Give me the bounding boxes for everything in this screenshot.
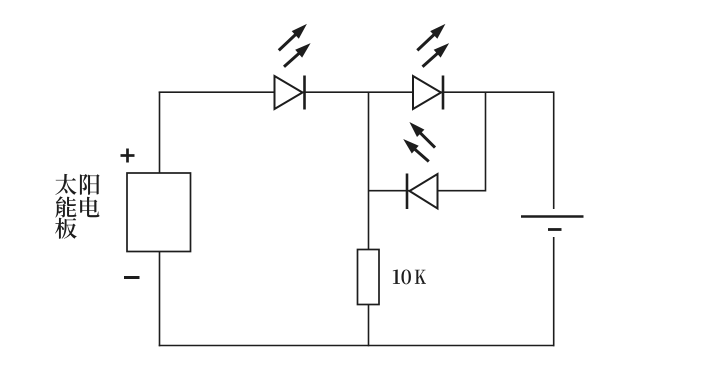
- wire bypass branch vertical to node B: [485, 92, 487, 192]
- LED D3 reverse triangle: [410, 174, 438, 209]
- label - polarity: [124, 276, 140, 279]
- LED D3 arrow 2: [414, 148, 429, 161]
- LED D2 arrow 1: [417, 34, 435, 51]
- battery negative plate: [548, 228, 562, 231]
- wire panel - lead: [159, 251, 161, 346]
- label + polarity: [121, 154, 135, 157]
- LED D1 triangle: [275, 76, 303, 109]
- wire node A to resistor R1: [368, 92, 370, 250]
- LED D1 arrow 1: [279, 34, 297, 51]
- wire resistor R1 to bottom rail: [368, 305, 370, 347]
- wire battery bottom lead: [553, 237, 555, 346]
- wire top positive rail: [159, 91, 555, 93]
- label 太阳能电板 solar panel: [55, 174, 100, 239]
- wire panel + lead: [159, 92, 161, 174]
- LED D3 arrow 1: [419, 132, 435, 148]
- battery positive plate: [521, 215, 584, 217]
- LED D1 cathode bar: [303, 76, 306, 110]
- resistor R1 body: [358, 250, 380, 305]
- LED D2 cathode bar: [442, 76, 445, 110]
- solar panel body: [127, 173, 191, 252]
- LED D3 cathode bar: [406, 174, 409, 210]
- wire bottom negative rail: [159, 345, 555, 347]
- wire battery top lead: [553, 92, 555, 210]
- LED D2 arrow 2: [423, 52, 439, 66]
- LED D1 arrow 2: [284, 52, 300, 66]
- LED D2 triangle: [413, 76, 441, 109]
- label 10K resistor value: [393, 269, 426, 284]
- wire bypass branch horizontal: [369, 190, 486, 192]
